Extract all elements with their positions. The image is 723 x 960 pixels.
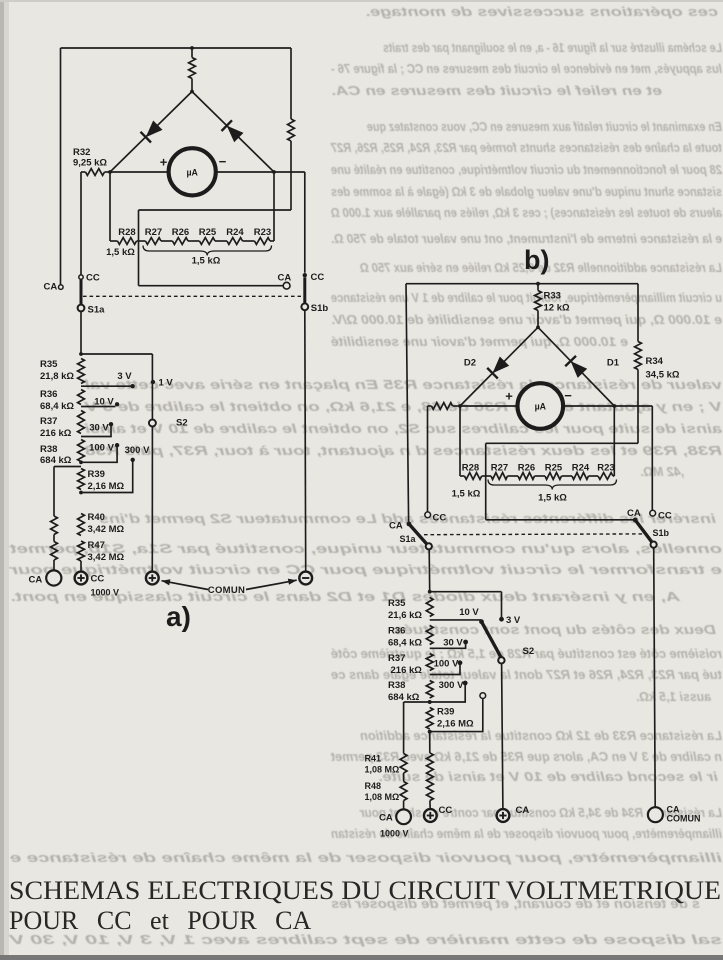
S1a CC contact bbox=[79, 275, 83, 279]
svg-text:CA: CA bbox=[627, 508, 641, 519]
wire: S2 pivot to COMUN terminal bbox=[151, 427, 153, 572]
S2 contact 3 V (b) bbox=[499, 617, 504, 622]
svg-text:e 10.000 Ω, qui permet d'avoir: e 10.000 Ω, qui permet d'avoir une sensi… bbox=[331, 335, 628, 349]
wire: - node down to shunt chain bbox=[273, 172, 275, 241]
S2 contact 100 V bbox=[115, 443, 119, 447]
dashed gang link S1a-S1b bbox=[83, 295, 301, 297]
svg-text:CA: CA bbox=[516, 805, 530, 816]
leader arrow to - terminal bbox=[246, 580, 297, 589]
S1b CA contact (open circle) bbox=[283, 282, 290, 289]
wire: left AC lead down to S1a CA contact bbox=[406, 284, 409, 522]
wire: 30V tap bbox=[81, 426, 111, 437]
resistor R35 (b) bbox=[426, 598, 433, 617]
switch S1b pivot b bbox=[651, 542, 657, 548]
svg-text:684 kΩ: 684 kΩ bbox=[40, 455, 72, 466]
S2 contact 300 V (b) bbox=[463, 681, 468, 686]
svg-text:R27: R27 bbox=[491, 463, 508, 474]
svg-text:S1b: S1b bbox=[653, 528, 670, 538]
svg-text:R41: R41 bbox=[365, 754, 382, 764]
node: bridge apex b bbox=[536, 325, 540, 329]
resistor (CA branch upper, unlabelled) bbox=[51, 516, 58, 535]
resistor R34 bbox=[635, 342, 642, 370]
junction: R38/R39 (b) bbox=[428, 700, 432, 704]
resistor (AC calibration, unlabelled) bbox=[288, 119, 295, 141]
svg-text:n calibre de 3 V en CA, alors: n calibre de 3 V en CA, alors que R35 de… bbox=[330, 750, 722, 764]
wire bbox=[589, 475, 599, 477]
svg-text:Deux des côtés du pont so: Deux des côtés du pont sont constitués bbox=[394, 623, 716, 637]
svg-text:SCHEMAS ELECTRIQUES DU CIRCUIT: SCHEMAS ELECTRIQUES DU CIRCUIT VOLTMETRI… bbox=[9, 876, 721, 905]
svg-text:R39: R39 bbox=[437, 707, 454, 718]
wire: 1000V contact link bbox=[430, 699, 483, 732]
svg-text:S2: S2 bbox=[176, 418, 188, 429]
svg-text:La résistance R33 de 12 kΩ con: La résistance R33 de 12 kΩ constitue la … bbox=[360, 729, 722, 743]
svg-text:1,08 MΩ: 1,08 MΩ bbox=[365, 792, 400, 802]
svg-text:,42 MΩ.: ,42 MΩ. bbox=[640, 465, 685, 479]
S2 contact 30 V (b) bbox=[463, 640, 468, 645]
wire: - node down to chain b bbox=[613, 406, 615, 476]
svg-text:216 kΩ: 216 kΩ bbox=[391, 665, 423, 676]
resistor (series, unlabelled, circuit b) bbox=[432, 403, 453, 410]
svg-text:R38, R39 et les deux résistanc: R38, R39 et les deux résistances d n ajo… bbox=[85, 444, 722, 458]
svg-text:+: + bbox=[160, 155, 168, 170]
svg-text:3,42 MΩ: 3,42 MΩ bbox=[88, 524, 125, 535]
wire: + node down to shunt chain bbox=[109, 172, 111, 241]
wire: to S1b CA contact bbox=[139, 285, 284, 287]
svg-text:ces opérations successives de: ces opérations successives de montage. bbox=[365, 5, 718, 19]
resistor (bridge series, unlabelled) bbox=[189, 58, 196, 79]
resistor R37 (b) bbox=[426, 654, 433, 671]
wire bbox=[562, 475, 573, 477]
svg-text:µA: µA bbox=[535, 402, 547, 412]
wire bbox=[535, 475, 546, 477]
terminal CA (+) circuit b bbox=[497, 809, 510, 822]
junction: R38/R39 bbox=[79, 460, 83, 464]
svg-text:R39: R39 bbox=[88, 469, 105, 480]
wire: left bridge diagonal b bbox=[460, 327, 538, 406]
wire: AC drop below resistor bbox=[290, 141, 292, 210]
svg-text:9,25 kΩ: 9,25 kΩ bbox=[73, 158, 107, 169]
S2 contact 10 V bbox=[115, 402, 119, 406]
junction: R39/R40 bbox=[79, 491, 83, 495]
svg-text:R38: R38 bbox=[388, 680, 405, 691]
svg-text:CA: CA bbox=[44, 282, 58, 293]
svg-text:S1a: S1a bbox=[400, 534, 417, 544]
S1a CC contact (circuit b) bbox=[425, 512, 431, 518]
svg-text:R28: R28 bbox=[118, 227, 135, 238]
svg-text:COMUN: COMUN bbox=[208, 585, 245, 596]
brace 1,5 kΩ group (b) bbox=[488, 480, 617, 490]
resistor R33 bbox=[535, 291, 542, 311]
wire: chain top to 1V line bbox=[81, 353, 152, 355]
svg-text:CA: CA bbox=[389, 521, 403, 532]
wire: to CA terminal bbox=[53, 560, 55, 570]
svg-text:D1: D1 bbox=[607, 358, 620, 369]
junction: top bus / resistor bbox=[190, 46, 194, 50]
wire bbox=[243, 240, 255, 242]
svg-text:12 kΩ: 12 kΩ bbox=[544, 303, 570, 314]
svg-text:R23: R23 bbox=[254, 227, 271, 238]
svg-text:e la résistance interne de l'i: e la résistance interne de l'instrument,… bbox=[331, 232, 722, 246]
terminal CC 1000 V (+) bbox=[75, 572, 88, 585]
svg-text:illiampèremètre, pour pouvoir: illiampèremètre, pour pouvoir disposer d… bbox=[10, 851, 722, 865]
resistor R25 bbox=[200, 238, 216, 245]
wire: R41 branch down bbox=[403, 702, 405, 754]
resistor R23 (b) bbox=[598, 473, 613, 480]
node: bridge apex bbox=[190, 90, 194, 94]
wire: meter rail b bbox=[460, 405, 614, 407]
diode (left, bridge a) bbox=[146, 121, 163, 138]
svg-text:216 kΩ: 216 kΩ bbox=[40, 428, 72, 439]
resistor R25 (b) bbox=[545, 473, 562, 480]
wire: 10V tap bbox=[81, 406, 116, 408]
brace 1,5 kΩ group bbox=[143, 246, 272, 256]
svg-text:1000 V: 1000 V bbox=[91, 588, 120, 598]
switch S2 pivot (circuit a) bbox=[149, 420, 156, 427]
meter M (microammeter) circuit a bbox=[169, 148, 216, 195]
S2 contact 300 V bbox=[131, 458, 135, 462]
resistor R28 (b) bbox=[465, 473, 482, 480]
svg-text:R24: R24 bbox=[572, 463, 590, 474]
wire: 1V line down to S2 pivot bbox=[151, 354, 153, 419]
wire: 300V tap bbox=[81, 462, 133, 493]
node: meter - junction b bbox=[612, 404, 616, 408]
svg-text:R37: R37 bbox=[40, 416, 57, 427]
svg-text:R38: R38 bbox=[40, 444, 57, 455]
resistor R36 bbox=[78, 390, 85, 405]
wire: between R41 and R48 bbox=[403, 773, 405, 782]
wire: R41 branch tap bbox=[404, 701, 430, 703]
S2 contact 1 V bbox=[151, 380, 155, 384]
wire: shunt chain b bbox=[460, 475, 465, 477]
S2 contact 100 V (b) bbox=[458, 660, 463, 665]
svg-text:1,5 kΩ: 1,5 kΩ bbox=[452, 489, 481, 500]
wire: S1b down to minus terminal bbox=[304, 310, 307, 571]
wire: AC drop crossing chain b bbox=[485, 443, 487, 520]
S1a wiper arm (set to CA) bbox=[409, 524, 429, 546]
svg-text:R36: R36 bbox=[388, 626, 405, 637]
svg-text:R25: R25 bbox=[545, 463, 563, 474]
svg-text:21,8 kΩ: 21,8 kΩ bbox=[40, 371, 74, 382]
wire: to S1b CA contact b bbox=[486, 519, 633, 521]
switch S1a pivot b bbox=[426, 543, 432, 549]
svg-text:3,42 MΩ: 3,42 MΩ bbox=[88, 552, 125, 563]
resistor R26 (b) bbox=[518, 473, 535, 480]
wire: R32 right lead bbox=[105, 171, 111, 173]
wire: 3V tap bbox=[81, 385, 131, 387]
svg-text:CC: CC bbox=[86, 273, 100, 284]
wire: + node down to chain b bbox=[459, 406, 461, 476]
wire: series resistor right lead b bbox=[453, 405, 461, 407]
wire bbox=[270, 240, 274, 242]
resistor R39 (b) bbox=[426, 708, 433, 730]
wire: CA branch down bbox=[53, 467, 55, 517]
wire: meter horizontal rail bbox=[110, 171, 274, 173]
resistor R37 bbox=[78, 411, 85, 434]
wire: top resistor lower lead bbox=[191, 79, 193, 92]
svg-text:CA: CA bbox=[29, 575, 43, 586]
svg-text:valeur de résistance, la rési: valeur de résistance, la résistance R35 … bbox=[84, 378, 722, 392]
svg-text:POUR CC et POUR CA: POUR CC et POUR CA bbox=[9, 906, 311, 935]
diode D1 bbox=[571, 361, 588, 378]
svg-text:R24: R24 bbox=[226, 227, 244, 238]
wire: to CA 1000V terminal bbox=[403, 801, 405, 810]
svg-text:+: + bbox=[505, 389, 513, 404]
wire: CA branch tap bbox=[54, 466, 81, 468]
wire: between CA-branch resistors bbox=[53, 535, 55, 542]
svg-text:En examinant le circuit relati: En examinant le circuit relatif aux mesu… bbox=[367, 120, 722, 134]
terminal CA (circuit a) bbox=[46, 570, 61, 585]
diode (right, bridge a) bbox=[227, 126, 244, 143]
wire: AC crossover b bbox=[486, 442, 638, 444]
wire: right AC drop bbox=[290, 48, 292, 119]
resistor R39 bbox=[78, 469, 85, 490]
svg-text:u circuit milliampèremétrique,: u circuit milliampèremétrique, fournit p… bbox=[331, 291, 722, 305]
wire: R34 upper lead bbox=[637, 284, 639, 342]
wire: AC drop to CA contact line bbox=[138, 210, 140, 286]
svg-text:1,08 MΩ: 1,08 MΩ bbox=[365, 765, 400, 775]
wire: 30V tap b bbox=[430, 644, 466, 649]
wire: chain below R39 junction bbox=[429, 732, 431, 753]
wire: R34 lower lead crossing - rail bbox=[637, 370, 639, 444]
wire: R33 upper lead bbox=[537, 284, 539, 291]
switch S1a pivot bbox=[78, 305, 85, 312]
meter M (microammeter) circuit b bbox=[518, 383, 564, 429]
svg-text:−: − bbox=[564, 388, 572, 403]
svg-text:R48: R48 bbox=[365, 781, 382, 791]
svg-text:D2: D2 bbox=[464, 358, 476, 369]
switch S1b pivot bbox=[301, 303, 308, 310]
svg-text:R33: R33 bbox=[544, 291, 561, 302]
S2 wiper arm (set to 10 V) bbox=[482, 622, 502, 658]
svg-text:COMUN: COMUN bbox=[667, 814, 701, 824]
svg-text:lus appuyés, met en évidence l: lus appuyés, met en évidence le circuit … bbox=[331, 62, 722, 76]
svg-text:et en relief le circuit des me: et en relief le circuit des mesures en C… bbox=[331, 84, 662, 98]
svg-text:1,5 kΩ: 1,5 kΩ bbox=[538, 493, 567, 504]
svg-text:100 V: 100 V bbox=[434, 659, 459, 670]
svg-text:CA: CA bbox=[379, 813, 393, 824]
svg-text:1,5 kΩ: 1,5 kΩ bbox=[106, 247, 135, 258]
svg-text:10 V: 10 V bbox=[94, 397, 114, 408]
resistor R24 (b) bbox=[572, 473, 589, 480]
wire: S1a pivot to chain b bbox=[428, 549, 431, 591]
svg-text:R35: R35 bbox=[388, 598, 406, 609]
svg-text:sistance shunt unique d'une va: sistance shunt unique d'une valeur globa… bbox=[331, 185, 722, 199]
node: meter - junction bbox=[272, 170, 276, 174]
wire: right rail to CC contact bbox=[304, 172, 306, 273]
svg-text:R37: R37 bbox=[388, 653, 405, 664]
svg-text:30 V: 30 V bbox=[443, 638, 463, 649]
wire: 100V tap bbox=[81, 447, 117, 463]
wire bbox=[215, 240, 227, 242]
svg-text:R25: R25 bbox=[199, 227, 217, 238]
svg-text:S1b: S1b bbox=[311, 303, 329, 314]
svg-text:R27: R27 bbox=[145, 227, 162, 238]
svg-text:b): b) bbox=[524, 245, 549, 275]
dashed gang link S1a-S1b (b) bbox=[424, 533, 643, 536]
wire bbox=[613, 475, 614, 477]
svg-text:2,16 MΩ: 2,16 MΩ bbox=[88, 481, 125, 492]
junction: chain top bbox=[79, 352, 83, 356]
S2 contact 3 V bbox=[130, 384, 134, 388]
svg-text:CC: CC bbox=[658, 511, 672, 522]
wire: left bridge diagonal bbox=[110, 92, 192, 173]
svg-text:µA: µA bbox=[186, 167, 198, 177]
svg-text:1000 V: 1000 V bbox=[380, 829, 409, 839]
resistor R28 bbox=[118, 238, 137, 245]
svg-text:300 V: 300 V bbox=[439, 680, 464, 691]
wire: 300V tap b bbox=[430, 685, 466, 702]
wire: chain to CC terminal b bbox=[429, 801, 431, 810]
switch S2 pivot (b) bbox=[498, 657, 504, 663]
svg-text:toute la chaîne des résistance: toute la chaîne des résistances shunts f… bbox=[330, 141, 722, 155]
wire: top resistor upper lead bbox=[191, 48, 193, 58]
terminal COMUN (+) bbox=[146, 572, 159, 585]
wire: S1b pivot to CA COMUN terminal bbox=[654, 548, 656, 807]
svg-text:Le schéma illustré sur la figu: Le schéma illustré sur la figure 16 - a,… bbox=[383, 41, 722, 55]
svg-text:V ; en y ajoutant encore R36 d: V ; en y ajoutant encore R36 de 68, e 21… bbox=[83, 400, 722, 414]
S2 contact 30 V bbox=[109, 422, 113, 426]
svg-text:R35: R35 bbox=[40, 359, 58, 370]
S1b CA contact (circuit b) bbox=[633, 518, 638, 523]
resistor R38 (b) bbox=[426, 681, 433, 699]
resistor R23 bbox=[255, 238, 271, 245]
S1b wiper arm (set to CA) bbox=[635, 520, 653, 544]
wire bbox=[482, 475, 491, 477]
wire: right bridge diagonal bbox=[192, 92, 274, 173]
S1a CA contact (open circle) bbox=[59, 285, 64, 290]
svg-text:CC: CC bbox=[439, 805, 453, 816]
svg-text:3 V: 3 V bbox=[117, 371, 132, 382]
svg-text:a): a) bbox=[166, 601, 191, 632]
resistor R41 bbox=[400, 754, 407, 774]
terminal CA 1000 V bbox=[396, 809, 411, 824]
wire: S2 pivot to CA terminal bbox=[502, 664, 503, 809]
resistor R24 bbox=[227, 238, 243, 245]
wire: chain to CC terminal bbox=[80, 561, 82, 572]
svg-text:S2: S2 bbox=[523, 646, 535, 657]
svg-text:R36: R36 bbox=[40, 389, 57, 400]
wire: left CC drop b bbox=[427, 406, 429, 512]
resistor R47 bbox=[78, 541, 85, 561]
svg-text:28 pour le fonctionnement du c: 28 pour le fonctionnement du circuit vol… bbox=[331, 163, 723, 177]
svg-text:R26: R26 bbox=[172, 227, 189, 238]
wire bbox=[508, 475, 519, 477]
resistor R48 bbox=[400, 782, 407, 801]
S2 contact 10 V (b) bbox=[479, 619, 484, 624]
svg-text:34,5 kΩ: 34,5 kΩ bbox=[646, 370, 680, 381]
svg-text:CC: CC bbox=[433, 513, 447, 524]
S2 contact 1000 V (open circle) bbox=[480, 693, 486, 699]
resistor R32 bbox=[86, 169, 105, 176]
resistor R35 bbox=[78, 359, 85, 384]
node: meter + junction bbox=[108, 170, 112, 174]
svg-text:68,4 kΩ: 68,4 kΩ bbox=[388, 638, 422, 649]
wire bbox=[137, 240, 146, 242]
svg-text:CC: CC bbox=[311, 272, 325, 283]
wire bbox=[161, 240, 173, 242]
junction: top bus / R33 bbox=[536, 282, 540, 286]
svg-text:10 V: 10 V bbox=[459, 607, 479, 618]
svg-text:100 V: 100 V bbox=[89, 443, 114, 454]
node: meter + junction b bbox=[458, 404, 462, 408]
wire: series resistor lead b bbox=[428, 405, 432, 407]
wire: left rail R32 to CC contact bbox=[80, 172, 82, 275]
svg-text:R26: R26 bbox=[518, 463, 535, 474]
junction: R39 bottom (b) bbox=[428, 730, 432, 734]
terminal CA COMUN bbox=[648, 807, 663, 822]
wire: shunt chain bbox=[110, 240, 118, 242]
wire: right bridge diagonal b bbox=[538, 327, 614, 406]
svg-text:3 V: 3 V bbox=[506, 615, 521, 626]
svg-text:R47: R47 bbox=[88, 540, 105, 551]
svg-text:e transformer le circuit voltm: e transformer le circuit voltmétrique po… bbox=[8, 563, 722, 577]
resistor R40 bbox=[78, 514, 85, 536]
svg-text:R23: R23 bbox=[597, 463, 614, 474]
diode D2 bbox=[493, 357, 510, 374]
svg-text:S1a: S1a bbox=[88, 305, 106, 316]
svg-text:aleurs de toutes les résistanc: aleurs de toutes les résistances) ; ces … bbox=[331, 206, 722, 220]
svg-text:R34: R34 bbox=[646, 356, 664, 367]
resistor R26 bbox=[173, 238, 189, 245]
svg-text:e 10.000 Ω, qui permet d'avoir: e 10.000 Ω, qui permet d'avoir une sensi… bbox=[331, 313, 722, 327]
resistor R36 (b) bbox=[426, 626, 433, 645]
svg-text:CC: CC bbox=[91, 574, 105, 585]
wire: - rail extension b bbox=[614, 405, 652, 407]
svg-text:sal dispose de cette manière d: sal dispose de cette manière de sept cal… bbox=[7, 933, 722, 947]
leader arrow to + terminal bbox=[162, 581, 209, 590]
svg-text:68,4 kΩ: 68,4 kΩ bbox=[40, 401, 74, 412]
resistor R27 (b) bbox=[491, 473, 508, 480]
terminal CC (+) circuit b bbox=[424, 809, 437, 822]
svg-text:2,16 MΩ: 2,16 MΩ bbox=[437, 719, 474, 730]
svg-text:−: − bbox=[219, 154, 227, 169]
wire: AC horizontal crossover bbox=[139, 209, 292, 211]
resistor (CA branch lower, unlabelled) bbox=[51, 542, 58, 561]
svg-text:R40: R40 bbox=[88, 512, 105, 523]
wire bbox=[188, 240, 200, 242]
wire: 10V tap b bbox=[430, 619, 481, 621]
wire: 100V tap b bbox=[430, 665, 460, 675]
terminal (-) bbox=[299, 572, 312, 585]
wire: R32 left lead bbox=[81, 171, 86, 173]
svg-text:300 V: 300 V bbox=[125, 445, 150, 456]
wire: top AC bus of bridge b bbox=[406, 283, 638, 285]
svg-text:1 V: 1 V bbox=[159, 378, 174, 389]
svg-text:aussi 1,5 kΩ.: aussi 1,5 kΩ. bbox=[636, 690, 711, 704]
wire: 3V line b bbox=[430, 591, 502, 593]
wire: - rail extension bbox=[274, 171, 305, 173]
wire: right CC drop b bbox=[651, 406, 653, 510]
junction: chain top b bbox=[428, 590, 432, 594]
svg-text:R32: R32 bbox=[73, 147, 90, 158]
wire: R33 lower lead bbox=[537, 311, 539, 328]
wire: 3V drop b bbox=[501, 592, 503, 617]
S1b CC contact (circuit b) bbox=[650, 510, 656, 516]
svg-text:30 V: 30 V bbox=[89, 423, 109, 434]
svg-text:R28: R28 bbox=[462, 463, 479, 474]
wire: S1a to multiplier chain bbox=[80, 311, 82, 354]
S1b CC contact bbox=[303, 273, 307, 277]
S1b wiper arm (set to CC) bbox=[303, 277, 306, 303]
S1a wiper arm (set to CC) bbox=[80, 279, 83, 304]
resistor R38 bbox=[78, 440, 85, 462]
resistor R27 bbox=[146, 238, 162, 245]
resistor (chain bottom, unlabelled, b) bbox=[427, 753, 434, 801]
wire: top AC bus of bridge a bbox=[61, 47, 292, 49]
wire: left AC lead down to CA contact bbox=[60, 48, 62, 285]
svg-text:1,5 kΩ: 1,5 kΩ bbox=[192, 256, 221, 267]
svg-text:CA: CA bbox=[278, 273, 292, 284]
